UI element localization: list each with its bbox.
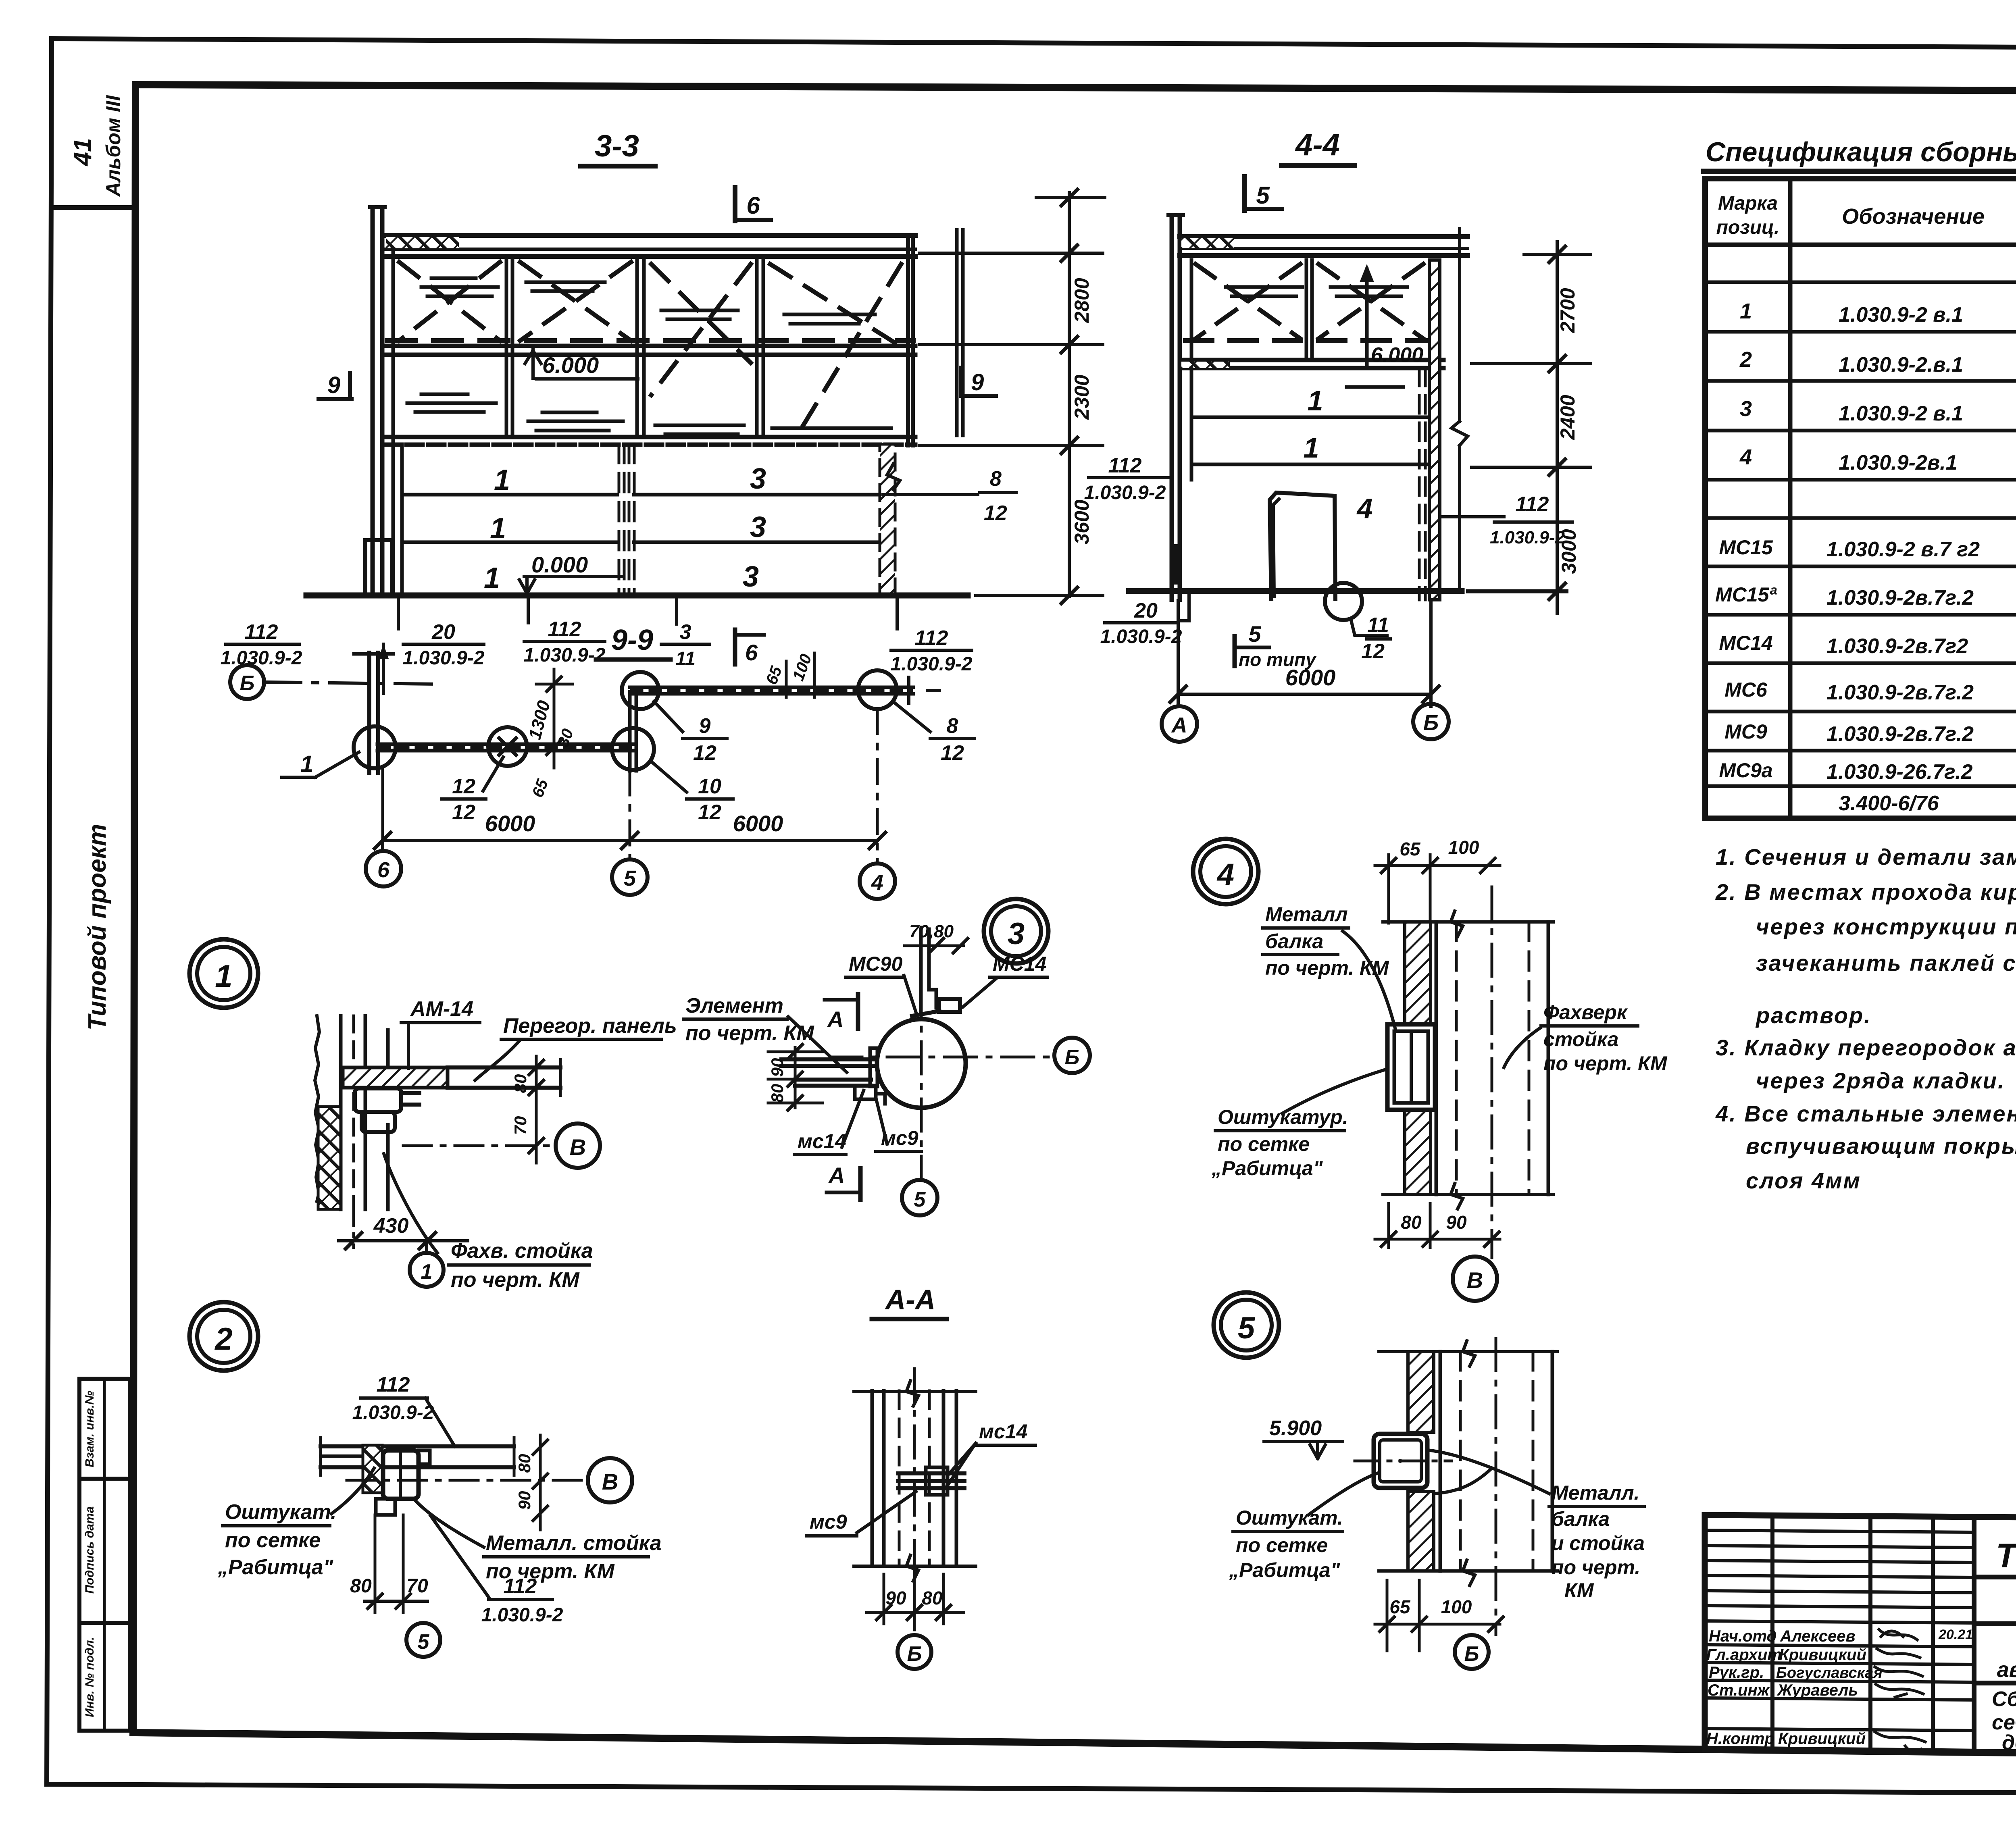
svg-text:1.030.9-2: 1.030.9-2 — [1100, 626, 1182, 647]
axis bubble В detail4 — [1453, 1257, 1497, 1301]
svg-text:1: 1 — [300, 751, 313, 777]
svg-text:4-4: 4-4 — [1295, 128, 1340, 162]
svg-text:1.030.9-2: 1.030.9-2 — [221, 647, 302, 669]
svg-text:МС15: МС15 — [1719, 536, 1773, 559]
center dash-dot d5 — [1495, 1338, 1497, 1635]
dim line 6000+6000 — [383, 839, 877, 842]
svg-text:3600: 3600 — [1070, 499, 1093, 544]
svg-text:1.030.9-2 в.7 г2: 1.030.9-2 в.7 г2 — [1826, 538, 1980, 561]
bottom dims 80 70 — [374, 1515, 377, 1612]
svg-text:Нач.отд: Нач.отд — [1709, 1627, 1776, 1645]
svg-text:3: 3 — [680, 620, 691, 644]
svg-text:МС9а: МС9а — [1719, 759, 1772, 782]
svg-text:2: 2 — [214, 1321, 232, 1357]
svg-text:автомобильных шин: автомобильных шин — [1997, 1658, 2016, 1682]
svg-text:112: 112 — [1516, 493, 1549, 516]
svg-text:6.000: 6.000 — [1371, 343, 1423, 367]
svg-text:90: 90 — [885, 1587, 906, 1608]
svg-text:100: 100 — [1448, 837, 1479, 858]
corner joint circle — [612, 728, 654, 770]
svg-text:112: 112 — [915, 626, 948, 650]
plaster stipple zone — [363, 1445, 382, 1493]
svg-text:12: 12 — [452, 775, 475, 798]
svg-text:1.030.9-2 в.1: 1.030.9-2 в.1 — [1839, 402, 1963, 425]
svg-text:12: 12 — [698, 801, 721, 824]
svg-text:20: 20 — [431, 620, 455, 644]
svg-text:Б: Б — [1423, 711, 1439, 735]
svg-text:90: 90 — [515, 1491, 534, 1510]
svg-text:МС14: МС14 — [993, 953, 1046, 975]
axis bubble 1 — [425, 1241, 428, 1253]
svg-text:мс9: мс9 — [810, 1511, 847, 1533]
svg-text:Алексеев: Алексеев — [1780, 1627, 1856, 1645]
svg-text:позиц.: позиц. — [1716, 217, 1780, 238]
svg-text:100: 100 — [1441, 1596, 1472, 1617]
middle beam — [385, 344, 915, 348]
axis circle Б left — [230, 665, 264, 699]
svg-text:Ст.инж: Ст.инж — [1708, 1681, 1770, 1699]
svg-text:1: 1 — [1308, 385, 1323, 416]
bottom dim 80 90 — [1387, 1203, 1390, 1248]
corner vertical leg — [628, 692, 632, 771]
joint circle at post — [354, 726, 396, 768]
svg-text:12: 12 — [941, 741, 964, 765]
svg-text:3000: 3000 — [1558, 529, 1580, 574]
svg-text:В: В — [1467, 1267, 1483, 1293]
truss diagonal dashes bay3 — [651, 264, 751, 395]
svg-text:по сетке: по сетке — [1236, 1534, 1328, 1556]
right boundary line — [1458, 229, 1461, 421]
svg-text:Кривицкий: Кривицкий — [1779, 1646, 1866, 1664]
svg-text:детали 1-5: детали 1-5 — [2002, 1731, 2016, 1754]
svg-text:5: 5 — [1256, 182, 1270, 209]
dim 80/70 detail1 — [535, 1056, 538, 1163]
svg-text:по черт.: по черт. — [1552, 1556, 1640, 1579]
svg-text:Фахверк: Фахверк — [1543, 1001, 1628, 1024]
svg-text:1.030.9-2в.7г.2: 1.030.9-2в.7г.2 — [1826, 722, 1974, 746]
truss diagonal dashes bay2 — [520, 262, 631, 341]
svg-text:20.21: 20.21 — [1938, 1627, 1973, 1642]
svg-text:1.030.9-2: 1.030.9-2 — [524, 645, 606, 666]
axis 4 dash line down — [876, 709, 879, 863]
staff columns — [1770, 1516, 1774, 1748]
column box d5 — [1374, 1434, 1427, 1488]
svg-text:12: 12 — [452, 801, 475, 824]
detail label circle 3 — [984, 899, 1048, 963]
svg-text:3.400-6/76: 3.400-6/76 — [1839, 792, 1939, 815]
svg-text:Металл. стойка: Металл. стойка — [486, 1531, 662, 1555]
svg-text:4. Все стальные элементы пе: 4. Все стальные элементы перегородок пок… — [1715, 1101, 2016, 1126]
svg-text:1: 1 — [421, 1260, 433, 1284]
dims 90 80 left — [794, 1047, 797, 1108]
svg-text:1.030.9-2в.7г.2: 1.030.9-2в.7г.2 — [1826, 681, 1974, 704]
svg-text:слоя 4мм: слоя 4мм — [1746, 1168, 1861, 1193]
column circle — [877, 1019, 966, 1108]
svg-text:1: 1 — [484, 562, 500, 594]
svg-text:112: 112 — [504, 1575, 537, 1598]
svg-text:5: 5 — [418, 1630, 430, 1654]
detail label circle 5 — [1214, 1292, 1279, 1358]
right hatched column 4-4 — [1429, 260, 1440, 600]
section flag 5 top — [1242, 177, 1247, 210]
svg-text:А: А — [1171, 713, 1187, 737]
callout 20/1.030.9-2 bottom left — [1187, 592, 1191, 621]
svg-text:Фахв. стойка: Фахв. стойка — [451, 1239, 593, 1263]
A-A bottom edge with break — [854, 1565, 976, 1568]
svg-text:2800: 2800 — [1070, 278, 1093, 323]
svg-text:„Рабитца": „Рабитца" — [1229, 1559, 1341, 1581]
svg-text:Элемент: Элемент — [685, 994, 783, 1017]
A-A top edge with break — [854, 1390, 976, 1393]
svg-text:80: 80 — [515, 1454, 534, 1473]
svg-text:1.030.9-2: 1.030.9-2 — [891, 653, 973, 675]
axis bubble Б detail5 — [1455, 1635, 1489, 1669]
svg-text:6000: 6000 — [733, 811, 783, 836]
svg-text:112: 112 — [1108, 454, 1142, 477]
svg-text:2. В местах прохода кирпичн: 2. В местах прохода кирпичных перегородо… — [1715, 879, 2016, 905]
svg-text:70,80: 70,80 — [909, 922, 954, 941]
A-A connection plates — [898, 1471, 964, 1475]
callout 8/12 right of panels — [883, 493, 978, 496]
svg-text:по черт. КМ: по черт. КМ — [1543, 1052, 1668, 1075]
truss post 3 — [755, 260, 759, 437]
svg-text:112: 112 — [377, 1373, 410, 1396]
row lines — [1705, 281, 2016, 284]
svg-text:Спецификация сборных железобет: Спецификация сборных железобетонных изде… — [1706, 137, 2016, 167]
svg-text:А: А — [827, 1007, 843, 1032]
ground line — [306, 593, 968, 599]
truss chord dashed 4-4 — [1185, 338, 1429, 343]
svg-text:МС90: МС90 — [849, 953, 903, 975]
svg-text:1.030.9-2в.7г.2: 1.030.9-2в.7г.2 — [1826, 586, 1974, 610]
A-A wall verticals — [871, 1391, 874, 1566]
svg-text:2400: 2400 — [1556, 395, 1579, 440]
svg-text:Гл.архит: Гл.архит — [1706, 1646, 1782, 1664]
metal stand box — [383, 1450, 419, 1499]
svg-text:41: 41 — [69, 138, 97, 167]
truss left edge — [1190, 260, 1193, 360]
svg-text:11: 11 — [675, 648, 696, 670]
svg-text:1: 1 — [1304, 432, 1319, 464]
svg-text:Оштукат.: Оштукат. — [1236, 1506, 1343, 1529]
svg-text:и стойка: и стойка — [1552, 1532, 1645, 1554]
joint circle upper wall right — [858, 670, 897, 709]
purlin marks truss — [421, 278, 498, 296]
svg-text:12: 12 — [693, 741, 716, 765]
joint circle upper wall left — [622, 672, 659, 709]
svg-text:3: 3 — [750, 511, 766, 543]
window glass marks pane2 — [528, 412, 623, 431]
left thin post — [1170, 215, 1174, 600]
svg-text:Оштукатур.: Оштукатур. — [1218, 1106, 1348, 1128]
dim 65 100 upper wall — [785, 661, 788, 697]
svg-text:мс14: мс14 — [798, 1130, 846, 1153]
left column line — [392, 235, 395, 444]
svg-text:1.030.9-2: 1.030.9-2 — [403, 647, 485, 669]
svg-text:КМ: КМ — [1564, 1579, 1594, 1602]
svg-text:Металл: Металл — [1265, 903, 1348, 926]
svg-text:90: 90 — [768, 1058, 787, 1077]
svg-text:АМ-14: АМ-14 — [410, 997, 473, 1021]
right edge posts — [906, 235, 910, 445]
svg-text:Взам. инв.№: Взам. инв.№ — [83, 1391, 96, 1467]
wall top edge with break — [1383, 920, 1553, 924]
staff narrow rows upper — [1705, 1530, 1974, 1532]
svg-text:80: 80 — [350, 1575, 372, 1597]
right hatched column — [880, 444, 895, 595]
svg-text:по сетке: по сетке — [225, 1529, 321, 1552]
truss diagonals 4-4 — [1195, 264, 1300, 339]
callout 112 right — [1441, 515, 1504, 518]
svg-text:Б: Б — [907, 1642, 922, 1666]
svg-text:80: 80 — [768, 1084, 787, 1103]
svg-text:А-А: А-А — [885, 1284, 935, 1315]
ground line 4-4 — [1129, 588, 1462, 594]
svg-text:„Рабитца": „Рабитца" — [217, 1556, 334, 1579]
staff signature rows — [1705, 1645, 1974, 1647]
wall right verticals — [1435, 922, 1438, 1194]
svg-text:А: А — [828, 1163, 845, 1188]
svg-text:1: 1 — [215, 958, 232, 994]
wall bottom edge with break — [1383, 1193, 1553, 1196]
svg-text:8: 8 — [990, 467, 1002, 491]
svg-text:Типовой проект: Типовой проект — [83, 824, 111, 1031]
svg-text:МС6: МС6 — [1724, 678, 1768, 701]
svg-text:9: 9 — [971, 369, 984, 395]
svg-text:Н.контр: Н.контр — [1706, 1730, 1774, 1748]
svg-text:раствор.: раствор. — [1755, 1003, 1872, 1028]
window glass marks pane4 — [772, 428, 891, 437]
dim chain right 4-4 — [1556, 242, 1559, 614]
svg-text:„Рабитца": „Рабитца" — [1211, 1157, 1323, 1180]
column lines — [1788, 179, 1793, 818]
svg-text:70: 70 — [511, 1116, 530, 1135]
svg-text:Богуславская: Богуславская — [1776, 1664, 1883, 1681]
wall bottom edge with break d5 — [1379, 1569, 1557, 1573]
svg-text:1.030.9-2в.7г2: 1.030.9-2в.7г2 — [1826, 635, 1968, 658]
svg-text:8: 8 — [947, 714, 958, 738]
lower wall (plan) — [377, 743, 633, 746]
hatched strip upper — [1405, 922, 1431, 1025]
svg-text:Марка: Марка — [1718, 193, 1778, 214]
svg-text:Обозначение: Обозначение — [1842, 204, 1985, 229]
svg-text:3-3: 3-3 — [595, 129, 639, 163]
svg-text:6.000: 6.000 — [542, 352, 599, 378]
axis Б dash-dot line — [264, 682, 435, 684]
flag 6 bottom — [733, 630, 737, 664]
svg-text:3. Кладку перегородок армиро: 3. Кладку перегородок армировать 2 Ф А I… — [1716, 1035, 2016, 1060]
axis bubble 5 — [612, 859, 648, 895]
flag 9 right — [959, 368, 963, 396]
panel edge left — [392, 444, 395, 595]
svg-text:1.030.9-2: 1.030.9-2 — [481, 1604, 563, 1626]
partition panel lines — [448, 1065, 560, 1069]
hatched strip upper d5 — [1408, 1352, 1434, 1432]
spec table outline — [1705, 179, 2016, 818]
svg-text:балка: балка — [1265, 930, 1323, 953]
element angles left of column — [781, 1057, 874, 1061]
svg-text:Перегор. панель: Перегор. панель — [503, 1014, 677, 1038]
svg-text:по черт. КМ: по черт. КМ — [1265, 957, 1389, 979]
svg-text:2: 2 — [1739, 347, 1752, 372]
svg-text:Б: Б — [1464, 1642, 1479, 1666]
arrow up 6.000 — [1365, 269, 1369, 365]
svg-text:6: 6 — [746, 192, 760, 219]
detail label circle 1 — [190, 939, 258, 1008]
header row line — [1705, 243, 2016, 247]
panel lines detail2 — [321, 1444, 514, 1448]
svg-text:112: 112 — [245, 620, 278, 644]
svg-text:5.900: 5.900 — [1269, 1417, 1322, 1440]
svg-text:4: 4 — [1356, 493, 1373, 524]
svg-text:3: 3 — [1740, 397, 1752, 421]
right side rows — [1974, 1575, 2016, 1579]
svg-text:3: 3 — [750, 463, 766, 495]
svg-text:12: 12 — [1361, 640, 1385, 663]
МС90 strap vertical — [919, 929, 923, 1013]
window glass marks pane3 — [655, 425, 744, 434]
svg-text:Альбом III: Альбом III — [102, 95, 125, 197]
wall top edge with break — [1379, 1350, 1557, 1353]
svg-text:2300: 2300 — [1070, 375, 1093, 420]
inner wall dashes right — [1418, 368, 1421, 600]
bracket below stand — [376, 1499, 395, 1515]
title block outline — [1705, 1515, 2016, 1758]
svg-text:6000: 6000 — [1285, 665, 1336, 690]
truss post 1 — [505, 260, 508, 437]
callout circle В detail2 — [588, 1458, 632, 1502]
truss mid post — [1305, 260, 1308, 359]
svg-text:Металл.: Металл. — [1552, 1481, 1639, 1504]
left post base — [365, 540, 392, 595]
truss post 2 — [635, 260, 639, 437]
callout circle Б detail3 — [1054, 1038, 1090, 1073]
wall right verticals d5 — [1439, 1352, 1442, 1571]
svg-text:80: 80 — [922, 1587, 943, 1608]
svg-text:Инв. № подл.: Инв. № подл. — [83, 1637, 96, 1717]
svg-text:430: 430 — [373, 1214, 409, 1238]
axis bubble 5 detail2 — [406, 1623, 440, 1657]
svg-text:мс14: мс14 — [979, 1420, 1027, 1443]
svg-text:70: 70 — [406, 1575, 428, 1597]
svg-text:5: 5 — [914, 1188, 926, 1211]
panel zone lines 4-4 — [1193, 416, 1429, 419]
axis dash-dot to В — [347, 1479, 585, 1482]
svg-text:вспучивающим покрытием ВПМ-2: вспучивающим покрытием ВПМ-2 толщиной су… — [1746, 1133, 2016, 1159]
svg-text:4: 4 — [871, 870, 883, 895]
A-A centerline — [913, 1369, 916, 1632]
svg-text:0.000: 0.000 — [531, 552, 588, 577]
svg-text:Б: Б — [240, 672, 255, 695]
dim 1300 vertical — [553, 669, 556, 768]
svg-text:3: 3 — [1008, 917, 1025, 951]
svg-text:2700: 2700 — [1556, 288, 1579, 333]
panel row lines right half — [634, 493, 880, 497]
beam box — [1387, 1024, 1435, 1110]
svg-text:4: 4 — [1739, 445, 1752, 469]
bottom dim 65 100 d5 — [1386, 1580, 1389, 1651]
svg-text:ТП 405-7-4.86: ТП 405-7-4.86 — [1996, 1537, 2016, 1575]
left margin column divider — [51, 205, 135, 210]
svg-text:стойка: стойка — [1543, 1028, 1618, 1051]
svg-text:112: 112 — [548, 618, 581, 641]
svg-text:через 2ряда кладки.: через 2ряда кладки. — [1756, 1068, 2005, 1093]
upper wall (plan) — [630, 686, 913, 689]
svg-text:В: В — [602, 1469, 618, 1494]
axis bubble Б — [1413, 704, 1449, 739]
svg-text:зачеканить паклей смоченной: зачеканить паклей смоченной в глинянный — [1756, 950, 2016, 976]
svg-text:1.030.9-2 в.1: 1.030.9-2 в.1 — [1839, 303, 1963, 327]
svg-text:65: 65 — [1400, 838, 1421, 859]
panel end hatched block — [343, 1067, 448, 1088]
level mark 6.000 — [531, 346, 535, 378]
top dim 65 100 — [1375, 864, 1500, 867]
axis bubble 5 detail3 — [902, 1180, 937, 1215]
dim chain right of 3-3 — [1068, 193, 1071, 597]
svg-text:90: 90 — [1446, 1212, 1467, 1233]
truss diagonal dashes bay4 — [770, 264, 901, 433]
svg-text:по сетке: по сетке — [1218, 1133, 1310, 1155]
svg-text:1: 1 — [1740, 299, 1752, 323]
A-A bottom dims 90 80 — [883, 1574, 885, 1624]
svg-text:1.030.9-2: 1.030.9-2 — [1490, 528, 1565, 547]
left bottom attribute strip table — [79, 1379, 130, 1731]
bracket below panel — [355, 1088, 401, 1112]
axis 6 post (plan) — [367, 653, 371, 773]
axis dash-dot through box — [1355, 1460, 1452, 1463]
center dash-dot — [1491, 887, 1493, 1258]
break mark on hatched column — [887, 464, 900, 490]
svg-text:12: 12 — [984, 501, 1007, 525]
truss diagonal dashes bay1 — [399, 262, 500, 341]
flag 5 по типу — [1233, 636, 1237, 666]
svg-text:В: В — [570, 1134, 586, 1160]
svg-text:10: 10 — [698, 775, 721, 798]
axis 5 dash line down — [629, 771, 631, 859]
svg-text:5: 5 — [624, 866, 636, 890]
svg-text:3: 3 — [743, 561, 759, 593]
svg-text:6: 6 — [745, 640, 758, 665]
hatched strip lower — [1405, 1110, 1431, 1194]
svg-text:Подпись дата: Подпись дата — [83, 1506, 96, 1594]
purlin marks 4-4 — [1226, 287, 1302, 296]
svg-text:65: 65 — [1389, 1596, 1411, 1617]
svg-text:80: 80 — [511, 1074, 530, 1093]
window glass marks pane1 — [407, 394, 496, 412]
detail label circle 4 — [1193, 839, 1258, 904]
window sill beam — [385, 435, 915, 439]
axis cross dash-dot — [830, 1056, 1053, 1059]
svg-text:через конструкции покрытия: через конструкции покрытия отверстия — [1756, 914, 2016, 939]
detail 1 wall lines — [315, 1016, 319, 1201]
svg-text:6: 6 — [377, 858, 390, 882]
svg-text:9: 9 — [699, 714, 711, 738]
svg-text:МС14: МС14 — [1719, 632, 1772, 654]
svg-text:6000: 6000 — [485, 811, 535, 836]
МС14 angle top — [939, 999, 960, 1012]
detail label circle 2 — [190, 1302, 258, 1371]
svg-text:балка: балка — [1552, 1508, 1610, 1530]
dims 80/90 detail2 — [539, 1435, 542, 1530]
svg-text:1.030.9-2в.1: 1.030.9-2в.1 — [1839, 451, 1958, 474]
door leaf — [1270, 493, 1335, 599]
top roof beam — [385, 233, 915, 238]
left thin fachwerk post — [371, 207, 375, 595]
lower beam 4-4 — [1180, 358, 1443, 362]
svg-text:9: 9 — [327, 372, 340, 398]
detail 1 wall crosshatch — [318, 1107, 341, 1209]
callout circle 11/12 — [1325, 583, 1362, 620]
